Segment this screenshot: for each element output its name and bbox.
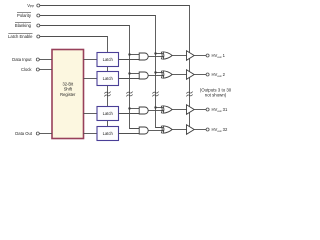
output terminal Data Out <box>15 131 39 136</box>
AND gate row 32 <box>139 127 148 134</box>
svg-text:Register: Register <box>60 92 76 97</box>
wire Blanking stub to AND gate row 2 <box>130 73 140 75</box>
svg-text:VPP: VPP <box>27 3 34 9</box>
junction Polarity row 2 <box>154 71 156 73</box>
wire buffer to output terminal row 31 <box>194 109 206 111</box>
wire Data Input to register <box>39 59 52 61</box>
XOR gate row 32 <box>160 126 163 134</box>
AND gate row 2 <box>139 72 148 79</box>
junction Blanking row 2 <box>128 72 130 74</box>
wire Polarity stub to XOR row 1 <box>156 53 163 55</box>
svg-text:Polarity: Polarity <box>17 13 32 18</box>
input terminal Clock <box>21 67 39 72</box>
wire Polarity stub to XOR row 31 <box>156 107 163 109</box>
break symbol on Polarity rail <box>152 92 158 94</box>
XOR gate row 31 <box>160 106 163 114</box>
output terminal HVout 32 <box>206 128 209 131</box>
svg-text:Latch: Latch <box>103 57 114 62</box>
wire register bit to latch 2 <box>84 78 98 80</box>
wire buffer to output terminal row 2 <box>194 74 206 76</box>
svg-text:Shift: Shift <box>64 87 73 92</box>
wire buffer to output terminal row 32 <box>194 129 206 131</box>
wire XOR to HV buffer row 32 <box>172 129 186 131</box>
svg-text:Blanking: Blanking <box>15 23 32 28</box>
output terminal HVout 2 <box>206 73 209 76</box>
XOR gate row 2 <box>160 71 163 79</box>
wire AND to XOR row 31 <box>148 110 163 112</box>
wire Latch-Enable net (top run and latch clock chain) <box>40 37 108 127</box>
input terminal Blanking (active low) <box>15 23 40 28</box>
svg-text:HVout 1: HVout 1 <box>212 53 226 59</box>
latch 1 <box>97 53 119 67</box>
svg-text:Latch: Latch <box>103 76 114 81</box>
wire Polarity stub to XOR row 2 <box>156 72 163 74</box>
junction Blanking row 1 <box>128 53 130 55</box>
svg-text:HVout 2: HVout 2 <box>212 72 226 78</box>
input terminal Polarity (active low) <box>17 13 40 18</box>
XOR gate row 1 <box>160 52 163 60</box>
wire Polarity net (top run, vertical rail, row-32 elbow) <box>40 16 163 128</box>
shift register U1 32-bit <box>52 50 84 139</box>
output terminal HVout 31 <box>206 108 209 111</box>
wire Blanking stub to AND gate row 31 <box>130 108 140 110</box>
wire AND to XOR row 2 <box>148 75 163 77</box>
svg-text:Data Input: Data Input <box>12 57 32 62</box>
wire Clock to register <box>39 69 52 71</box>
junction Blanking row 31 <box>128 107 130 109</box>
wire Blanking stub to AND gate row 1 <box>130 54 140 56</box>
wire latch 31 to AND gate <box>119 113 140 115</box>
wire AND to XOR row 1 <box>148 56 163 58</box>
input terminal Latch Enable (active low) <box>8 34 40 39</box>
AND gate row 1 <box>139 53 148 60</box>
svg-text:HVout 31: HVout 31 <box>212 107 228 113</box>
wire buffer to output terminal row 1 <box>194 55 206 57</box>
junction Polarity row 31 <box>154 106 156 108</box>
wire Data Out from register <box>39 133 52 135</box>
input terminal VPP <box>27 3 40 9</box>
svg-text:32-Bit: 32-Bit <box>62 81 74 86</box>
latch 31 <box>97 107 119 121</box>
wire register bit to latch 1 <box>84 59 98 61</box>
HV buffer row 2 <box>187 70 195 80</box>
svg-text:HVout 32: HVout 32 <box>212 127 228 133</box>
HV buffer row 31 <box>187 105 195 115</box>
wire register bit to latch 31 <box>84 113 98 115</box>
svg-text:Latch: Latch <box>103 131 114 136</box>
svg-text:not shown): not shown) <box>205 93 227 98</box>
wire register bit to latch 32 <box>84 133 98 135</box>
svg-text:Latch Enable: Latch Enable <box>8 34 33 39</box>
output terminal HVout 1 <box>206 54 209 57</box>
HV buffer row 1 <box>187 51 195 61</box>
AND gate row 31 <box>139 107 148 114</box>
break symbol on Latch-Enable rail <box>104 92 110 94</box>
latch 2 <box>97 72 119 86</box>
break symbol on Blanking rail <box>126 92 132 94</box>
wire XOR to HV buffer row 1 <box>172 55 186 57</box>
input terminal Data Input <box>12 57 39 62</box>
junction Polarity row 1 <box>154 52 156 54</box>
svg-text:Data Out: Data Out <box>15 131 33 136</box>
wire latch 2 to AND gate <box>119 78 140 80</box>
wire Blanking net (top run, vertical rail, row-32 elbow) <box>40 26 139 129</box>
wire VPP net (top run and vertical rail) <box>40 6 190 129</box>
svg-text:Clock: Clock <box>21 67 32 72</box>
latch 32 <box>97 127 119 141</box>
wire latch 1 to AND gate <box>119 59 140 61</box>
break symbol on VPP rail <box>186 92 192 94</box>
HV buffer row 32 <box>187 125 195 135</box>
wire XOR to HV buffer row 31 <box>172 109 186 111</box>
svg-text:Latch: Latch <box>103 111 114 116</box>
wire XOR to HV buffer row 2 <box>172 74 186 76</box>
wire AND to XOR row 32 <box>148 130 163 132</box>
wire latch 32 to AND gate <box>119 133 140 135</box>
svg-text:(Outputs 3 to 30: (Outputs 3 to 30 <box>200 87 232 92</box>
